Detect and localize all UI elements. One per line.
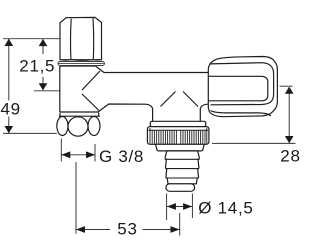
- arrow 28 down: [285, 136, 294, 143]
- dim 49 line: [8, 39, 10, 133]
- dim 21,5 line: [42, 39, 44, 90]
- arrow dia right: [183, 203, 192, 210]
- dim 21,5 extension top ref line: [3, 38, 60, 40]
- dim 53 ext lines: [76, 162, 180, 236]
- svg-text:28: 28: [280, 147, 300, 166]
- dim dia14,5 ext lines: [167, 194, 193, 221]
- hex bottom arcs: [60, 59, 102, 62]
- arrow dia left: [167, 203, 176, 210]
- arrow 21,5 down: [39, 83, 48, 90]
- dimension graphics: [3, 39, 296, 236]
- hose barb: [165, 151, 199, 184]
- svg-text:Ø 14,5: Ø 14,5: [198, 199, 253, 218]
- dim G3/8 line: [61, 154, 95, 156]
- handle grip window: [208, 76, 267, 101]
- arrow G3/8 left: [61, 151, 70, 158]
- dim 49 bottom ref line: [3, 132, 57, 134]
- arrow 53 left: [76, 226, 85, 233]
- arrow 21,5 up: [39, 39, 48, 46]
- arrow 28 up: [285, 87, 294, 94]
- chevron break mark left block: [82, 71, 100, 111]
- dim 28 bottom ref line: [212, 142, 296, 144]
- dim 21,5 bottom ref line: [34, 90, 60, 92]
- barb end bead: [166, 184, 195, 192]
- svg-text:G 3/8: G 3/8: [99, 147, 144, 166]
- handle end-cap contour: [210, 63, 274, 105]
- handle: [208, 57, 277, 117]
- washer under hex: [58, 61, 104, 65]
- svg-text:49: 49: [1, 100, 21, 119]
- chevron break mark outlet: [161, 92, 199, 107]
- dim 53 line: [76, 229, 180, 231]
- dim G3/8 ext lines: [61, 139, 95, 162]
- handle bottom skirt line: [211, 111, 271, 116]
- svg-text:53: 53: [117, 219, 137, 238]
- nut band: [60, 113, 99, 117]
- arrow 53 right: [171, 226, 180, 233]
- dim dia14,5 line: [167, 206, 192, 208]
- dim 28 line: [288, 87, 290, 142]
- arrow 49 up: [5, 39, 14, 46]
- dim 28 top ref line: [280, 85, 293, 87]
- valve body: [60, 66, 215, 122]
- svg-text:21,5: 21,5: [19, 57, 55, 76]
- nut lobe center: [68, 117, 88, 136]
- knurled nut: [147, 127, 209, 145]
- arrow 49 down: [5, 126, 14, 133]
- nut lobe left: [57, 117, 68, 136]
- nut lobe right: [88, 117, 100, 136]
- knurl hatching: [150, 128, 207, 144]
- nut top chord: [59, 115, 100, 117]
- flange above knurl: [150, 121, 205, 126]
- lower ring: [155, 144, 204, 151]
- barb ridge lines: [165, 159, 200, 178]
- hex cap: [60, 17, 102, 59]
- hex facet lines: [71, 18, 94, 60]
- arrow G3/8 right: [86, 151, 95, 158]
